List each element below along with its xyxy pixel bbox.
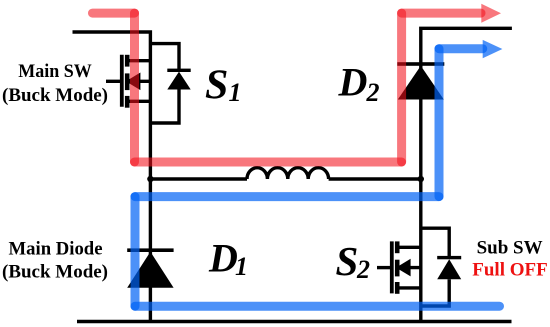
- svg-text:Sub SW: Sub SW: [477, 238, 543, 259]
- svg-text:2: 2: [366, 78, 380, 107]
- svg-text:(Buck Mode): (Buck Mode): [2, 261, 108, 282]
- svg-text:S: S: [336, 238, 359, 284]
- svg-text:Main Diode: Main Diode: [9, 238, 103, 259]
- svg-text:D: D: [338, 59, 368, 104]
- svg-text:Main SW: Main SW: [18, 61, 92, 82]
- svg-text:D: D: [208, 235, 238, 280]
- svg-text:1: 1: [229, 78, 242, 107]
- svg-text:Full OFF: Full OFF: [472, 259, 547, 280]
- svg-text:S: S: [205, 63, 228, 109]
- svg-text:2: 2: [356, 255, 370, 284]
- svg-text:(Buck Mode): (Buck Mode): [2, 85, 108, 106]
- svg-text:1: 1: [235, 252, 248, 281]
